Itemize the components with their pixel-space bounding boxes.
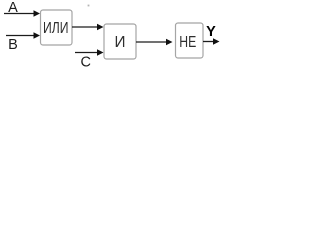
NOT gate box (НЕ) bbox=[176, 23, 204, 58]
arrowhead Y output bbox=[213, 38, 220, 44]
arrowhead C into AND gate bottom input bbox=[97, 49, 104, 55]
wire C input bbox=[75, 52, 98, 54]
svg-text:ИЛИ: ИЛИ bbox=[43, 20, 69, 37]
arrowhead into NOT gate bbox=[166, 39, 173, 45]
arrowhead B into OR gate bbox=[34, 32, 41, 38]
svg-text:И: И bbox=[115, 34, 126, 51]
wire AND output to NOT input bbox=[136, 41, 167, 43]
svg-text:НЕ: НЕ bbox=[179, 34, 196, 51]
AND gate box (И) bbox=[104, 24, 136, 59]
arrowhead into AND gate top input bbox=[97, 24, 104, 30]
wire A input bbox=[4, 13, 35, 15]
wire B input bbox=[6, 35, 35, 37]
svg-text:Y: Y bbox=[206, 24, 216, 40]
OR gate box (ИЛИ) bbox=[41, 10, 73, 45]
wire Y output bbox=[203, 41, 214, 43]
arrowhead A into OR gate bbox=[34, 10, 41, 16]
svg-text:B: B bbox=[8, 37, 18, 53]
wire OR output to AND input bbox=[72, 26, 98, 28]
svg-text:C: C bbox=[80, 55, 90, 71]
